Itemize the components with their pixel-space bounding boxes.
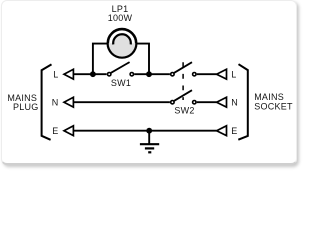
terminal arrow plug E [64, 126, 73, 136]
ground [140, 131, 159, 153]
switch SW2 pole A [171, 62, 196, 76]
svg-text:L: L [231, 70, 236, 80]
svg-text:L: L [53, 70, 58, 80]
lamp LP1 [108, 29, 136, 57]
junction dot E/ground [146, 128, 152, 134]
svg-text:SW2: SW2 [174, 105, 194, 115]
terminal arrow socket E [217, 126, 227, 136]
junction dot L-left [90, 71, 96, 77]
wire L row right [197, 73, 217, 75]
bracket mains socket [238, 64, 248, 140]
svg-text:100W: 100W [108, 13, 133, 23]
SW2 gang link (dashed) [182, 62, 184, 100]
wire L row middle [134, 73, 170, 75]
wire N row right [197, 101, 217, 103]
svg-text:E: E [231, 126, 237, 136]
terminal arrow plug L [64, 69, 73, 79]
wire E row [73, 130, 216, 132]
switch SW1 [108, 62, 134, 76]
terminal arrow socket L [217, 69, 227, 79]
svg-text:SW1: SW1 [111, 78, 131, 88]
wire N row left [73, 101, 169, 103]
svg-text:SOCKET: SOCKET [254, 102, 293, 112]
terminal arrow plug N [64, 97, 73, 107]
terminal arrow socket N [217, 97, 227, 107]
junction dot L-right [146, 71, 152, 77]
svg-text:N: N [52, 98, 59, 108]
wire lamp branch [93, 44, 149, 75]
svg-text:E: E [52, 126, 58, 136]
svg-text:PLUG: PLUG [13, 102, 39, 112]
bracket mains plug [42, 64, 52, 139]
switch SW2 pole B [171, 90, 196, 104]
svg-text:N: N [231, 98, 238, 108]
wire L row left [73, 73, 106, 75]
